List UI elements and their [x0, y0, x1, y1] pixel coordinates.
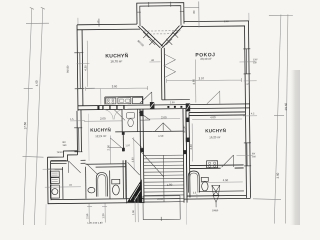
window left lower — [74, 128, 82, 152]
svg-text:12,21 m²: 12,21 m² — [95, 134, 106, 138]
stove burners upper — [107, 99, 109, 101]
right kitchen top wall — [189, 112, 245, 116]
pokoj dim line vertical — [194, 59, 196, 102]
bottom dim line 2 — [102, 203, 107, 222]
inter-room wall — [161, 48, 165, 100]
bottom wall right — [184, 195, 251, 199]
porch steps — [143, 196, 180, 202]
vestibule door swing right — [132, 138, 143, 149]
lower-left kitchen dim vertical 2 — [88, 114, 91, 161]
svg-text:29.60: 29.60 — [284, 103, 288, 111]
pokoj door swing lower right — [207, 91, 220, 104]
wall tick y168 left — [43, 168, 55, 170]
window right lower dim tick — [236, 154, 252, 156]
stair right wall — [183, 109, 187, 203]
stair run diagonal — [140, 151, 163, 177]
left dim tick top — [26, 7, 49, 23]
kitchen-bath wall lower-left segment B — [86, 164, 126, 167]
right kitchen bottom wall — [190, 165, 244, 169]
left dimension line pair — [21, 8, 45, 226]
right dim tick top — [269, 14, 293, 16]
right dimension line pair — [272, 14, 290, 223]
hall door swing left — [139, 112, 150, 120]
hinge mark lower — [186, 138, 190, 143]
hall dim line — [145, 118, 180, 120]
left dim tick mid — [24, 87, 33, 89]
WC toilet — [50, 185, 59, 198]
lower-left kitchen dim vertical — [109, 135, 111, 163]
bathroom door swing — [87, 164, 98, 175]
svg-text:2.40: 2.40 — [224, 20, 229, 23]
svg-text:1.20: 1.20 — [101, 213, 105, 219]
svg-text:4.60: 4.60 — [210, 115, 216, 119]
porch center tick — [160, 217, 162, 221]
small wc left wall — [121, 109, 123, 131]
window right upper dim tick — [239, 61, 255, 63]
mid wall black squares right door — [167, 106, 169, 108]
svg-text:4.40: 4.40 — [189, 144, 193, 150]
window right lower — [244, 143, 251, 166]
bay top dim line — [184, 1, 199, 27]
bay mullion ticks — [137, 2, 184, 13]
right wall tick y82 — [244, 80, 257, 82]
bath-wc dividing wall — [109, 170, 111, 198]
svg-text:1.00: 1.00 — [131, 210, 135, 216]
right corner tick — [248, 13, 250, 21]
svg-text:2.60: 2.60 — [132, 157, 135, 163]
corridor door swing — [69, 161, 81, 173]
bottom wall left — [48, 199, 144, 204]
right wall tick y117 — [243, 115, 257, 117]
vestibule wall left part — [115, 130, 152, 132]
door frame vertical — [122, 132, 124, 151]
top wall corner tick — [77, 18, 79, 25]
mid wall door arcs left — [103, 109, 124, 119]
svg-text:60/: 60/ — [252, 153, 256, 155]
stair left wall — [140, 109, 144, 203]
chimney flue dark right — [186, 103, 190, 111]
right kitchen dim horizontal — [192, 118, 242, 121]
kitchen upper dim line horizontal — [86, 86, 148, 91]
bottom dim line 1 — [87, 204, 92, 223]
svg-text:20,40 m²: 20,40 m² — [200, 57, 211, 61]
vestibule dim line — [133, 137, 135, 170]
small wc door swing — [114, 109, 125, 120]
svg-text:±0,00: ±0,00 — [157, 198, 164, 201]
WC room wall — [48, 167, 63, 199]
svg-text:4.50: 4.50 — [223, 178, 229, 182]
kitchen upper dim line vertical — [86, 41, 89, 87]
hall dark junction — [139, 111, 143, 117]
outer wall left bottom — [48, 157, 52, 204]
left wall dim extension — [45, 204, 48, 226]
svg-text:2.60: 2.60 — [100, 117, 106, 121]
right kitchen dim vertical — [191, 124, 193, 162]
bathtub right — [188, 171, 199, 193]
window tick into room — [76, 64, 94, 89]
level mark line — [45, 186, 81, 188]
right kitchen left wall — [186, 109, 190, 198]
stair treads — [143, 155, 184, 202]
mid wall threshold marks left door — [103, 105, 124, 109]
WC boiler box 2 — [50, 178, 59, 184]
mid wall — [78, 104, 250, 110]
inter-room door X — [164, 54, 176, 78]
drain pipe — [215, 202, 217, 207]
stair right wall hinge blob — [183, 150, 186, 154]
hall vestibule wall — [152, 130, 183, 132]
outer wall right — [244, 21, 250, 198]
svg-text:90/150: 90/150 — [66, 65, 69, 73]
stair center line — [162, 155, 165, 201]
inter-room wall dim tick — [149, 61, 160, 63]
bay window inner — [140, 6, 181, 26]
top wall tick — [98, 19, 100, 27]
bathtub left — [96, 172, 107, 196]
right bath inner bottom wall — [199, 190, 244, 193]
svg-text:4.30: 4.30 — [83, 65, 87, 71]
pokoj dim line horizontal — [167, 78, 242, 83]
svg-text:16,20 m²: 16,20 m² — [209, 135, 220, 139]
hinge mark upper — [186, 118, 190, 123]
toilet left bath tank — [112, 179, 120, 184]
vestibule door swing — [109, 138, 122, 149]
sink upper — [118, 98, 131, 104]
kitchen counter upper — [105, 97, 143, 105]
stove upper — [106, 98, 116, 104]
svg-text:1.80: 1.80 — [167, 183, 173, 187]
svg-text:120/: 120/ — [253, 59, 258, 61]
svg-text:1.97: 1.97 — [125, 144, 130, 147]
stove lower-right — [207, 161, 218, 168]
lower-left kitchen dim horizontal — [84, 120, 122, 122]
bay dashed beam lines — [144, 31, 178, 34]
sink left bath — [88, 187, 95, 193]
toilet right tank — [201, 177, 208, 181]
outer wall top-right — [181, 21, 249, 27]
counter end box — [132, 98, 142, 104]
toilet left bath bowl — [112, 185, 119, 195]
kitchen corner dim extension — [100, 89, 102, 105]
closet wall vertical — [125, 160, 127, 203]
wall tick y120 — [70, 120, 85, 122]
outer wall top-left — [77, 24, 140, 30]
bottom wall tick right — [196, 194, 198, 199]
utility wall dark — [123, 160, 126, 198]
svg-text:4.95: 4.95 — [192, 79, 196, 85]
small wc toilet — [127, 113, 135, 119]
pokoj bottom inner line — [162, 99, 190, 101]
sink right with drain — [212, 185, 220, 195]
right dim tick bottom — [253, 199, 281, 200]
under-stair dark triangle — [127, 179, 142, 202]
svg-text:3.97: 3.97 — [199, 76, 205, 80]
svg-text:3.60: 3.60 — [276, 172, 280, 178]
window right upper — [243, 49, 250, 74]
svg-text:2.00: 2.00 — [170, 101, 175, 104]
door frame blob bottom — [122, 148, 125, 152]
svg-text:2.50: 2.50 — [85, 213, 89, 219]
outer wall left lower — [77, 110, 81, 152]
kitchen-bath wall lower-left segment A — [51, 160, 86, 163]
svg-text:17.50: 17.50 — [23, 122, 27, 130]
counter end dark tick — [97, 106, 99, 110]
chimney flue dark left — [150, 102, 155, 109]
svg-text:4.60: 4.60 — [35, 80, 39, 86]
stair wall hinge blob — [141, 148, 144, 152]
svg-text:1.50: 1.50 — [158, 134, 164, 138]
hall door swings — [155, 123, 171, 131]
right bath dim line — [201, 181, 243, 183]
drain triangle — [213, 195, 219, 202]
svg-text:1.20 2.50 1.80: 1.20 2.50 1.80 — [87, 222, 103, 225]
outer wall left upper — [77, 25, 83, 111]
right kitchen door swing — [221, 155, 233, 167]
svg-text:150: 150 — [62, 144, 67, 147]
bay diagonal wall left — [138, 26, 163, 48]
stair wall dim extension — [186, 203, 188, 225]
porch dim line — [135, 196, 138, 222]
bay window X marks left — [143, 32, 155, 45]
WC boiler box 1 — [50, 171, 59, 177]
right dim tick mid — [274, 114, 284, 116]
wall jog stepped — [47, 151, 77, 161]
door swing hall top — [140, 92, 152, 103]
svg-text:2.60: 2.60 — [161, 115, 167, 119]
window left upper — [74, 53, 83, 89]
left dim tick lower — [22, 156, 43, 157]
svg-text:DN50: DN50 — [212, 209, 219, 212]
svg-text:3.60: 3.60 — [112, 84, 118, 88]
bay window X marks right — [166, 32, 178, 45]
bay window outer — [137, 3, 184, 25]
closet door swing — [128, 162, 140, 175]
bathroom left wall — [85, 167, 87, 199]
porch outline — [143, 196, 180, 220]
bay diagonal wall right — [161, 26, 184, 48]
small wc right wall — [136, 109, 138, 131]
svg-text:75/197: 75/197 — [56, 151, 64, 154]
door frame blob top — [122, 132, 125, 135]
svg-text:16,70 m²: 16,70 m² — [110, 59, 122, 63]
toilet right bowl — [202, 182, 209, 191]
